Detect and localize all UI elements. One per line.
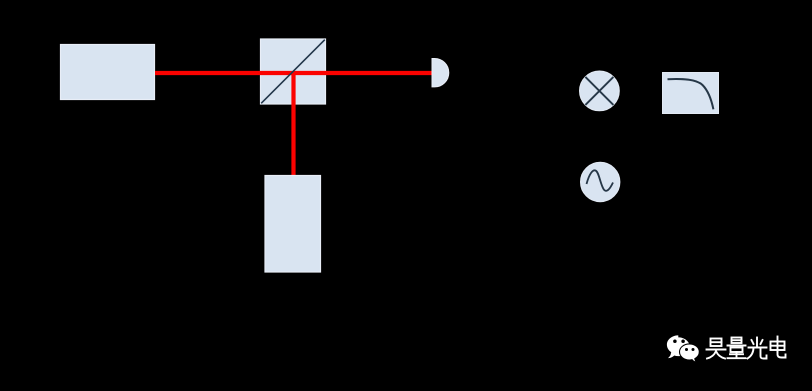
mixer U1 xyxy=(580,71,620,111)
wechat logo: eyes xyxy=(673,339,694,351)
wire: vertical red beam xyxy=(291,73,295,176)
brand text 昊量光电 (drawn strokes) xyxy=(707,337,786,359)
mixer X xyxy=(585,77,613,105)
beamsplitter cube xyxy=(261,39,326,104)
char 量 xyxy=(728,338,746,359)
mirror rectangle xyxy=(265,176,321,273)
low-pass filter curve xyxy=(668,79,714,109)
char 光 xyxy=(748,338,767,359)
char 电 xyxy=(771,337,786,358)
oscillator sine xyxy=(587,170,614,191)
wechat logo: big bubble xyxy=(667,335,690,358)
wechat logo: small bubble xyxy=(680,344,700,362)
photodetector D1 xyxy=(432,59,449,87)
wire: horizontal red beam xyxy=(155,71,432,75)
laser box xyxy=(61,45,155,100)
oscillator OSC1 xyxy=(581,162,620,201)
beamsplitter diagonal xyxy=(261,40,325,104)
char 昊 xyxy=(707,339,726,359)
low-pass filter box xyxy=(663,73,719,114)
